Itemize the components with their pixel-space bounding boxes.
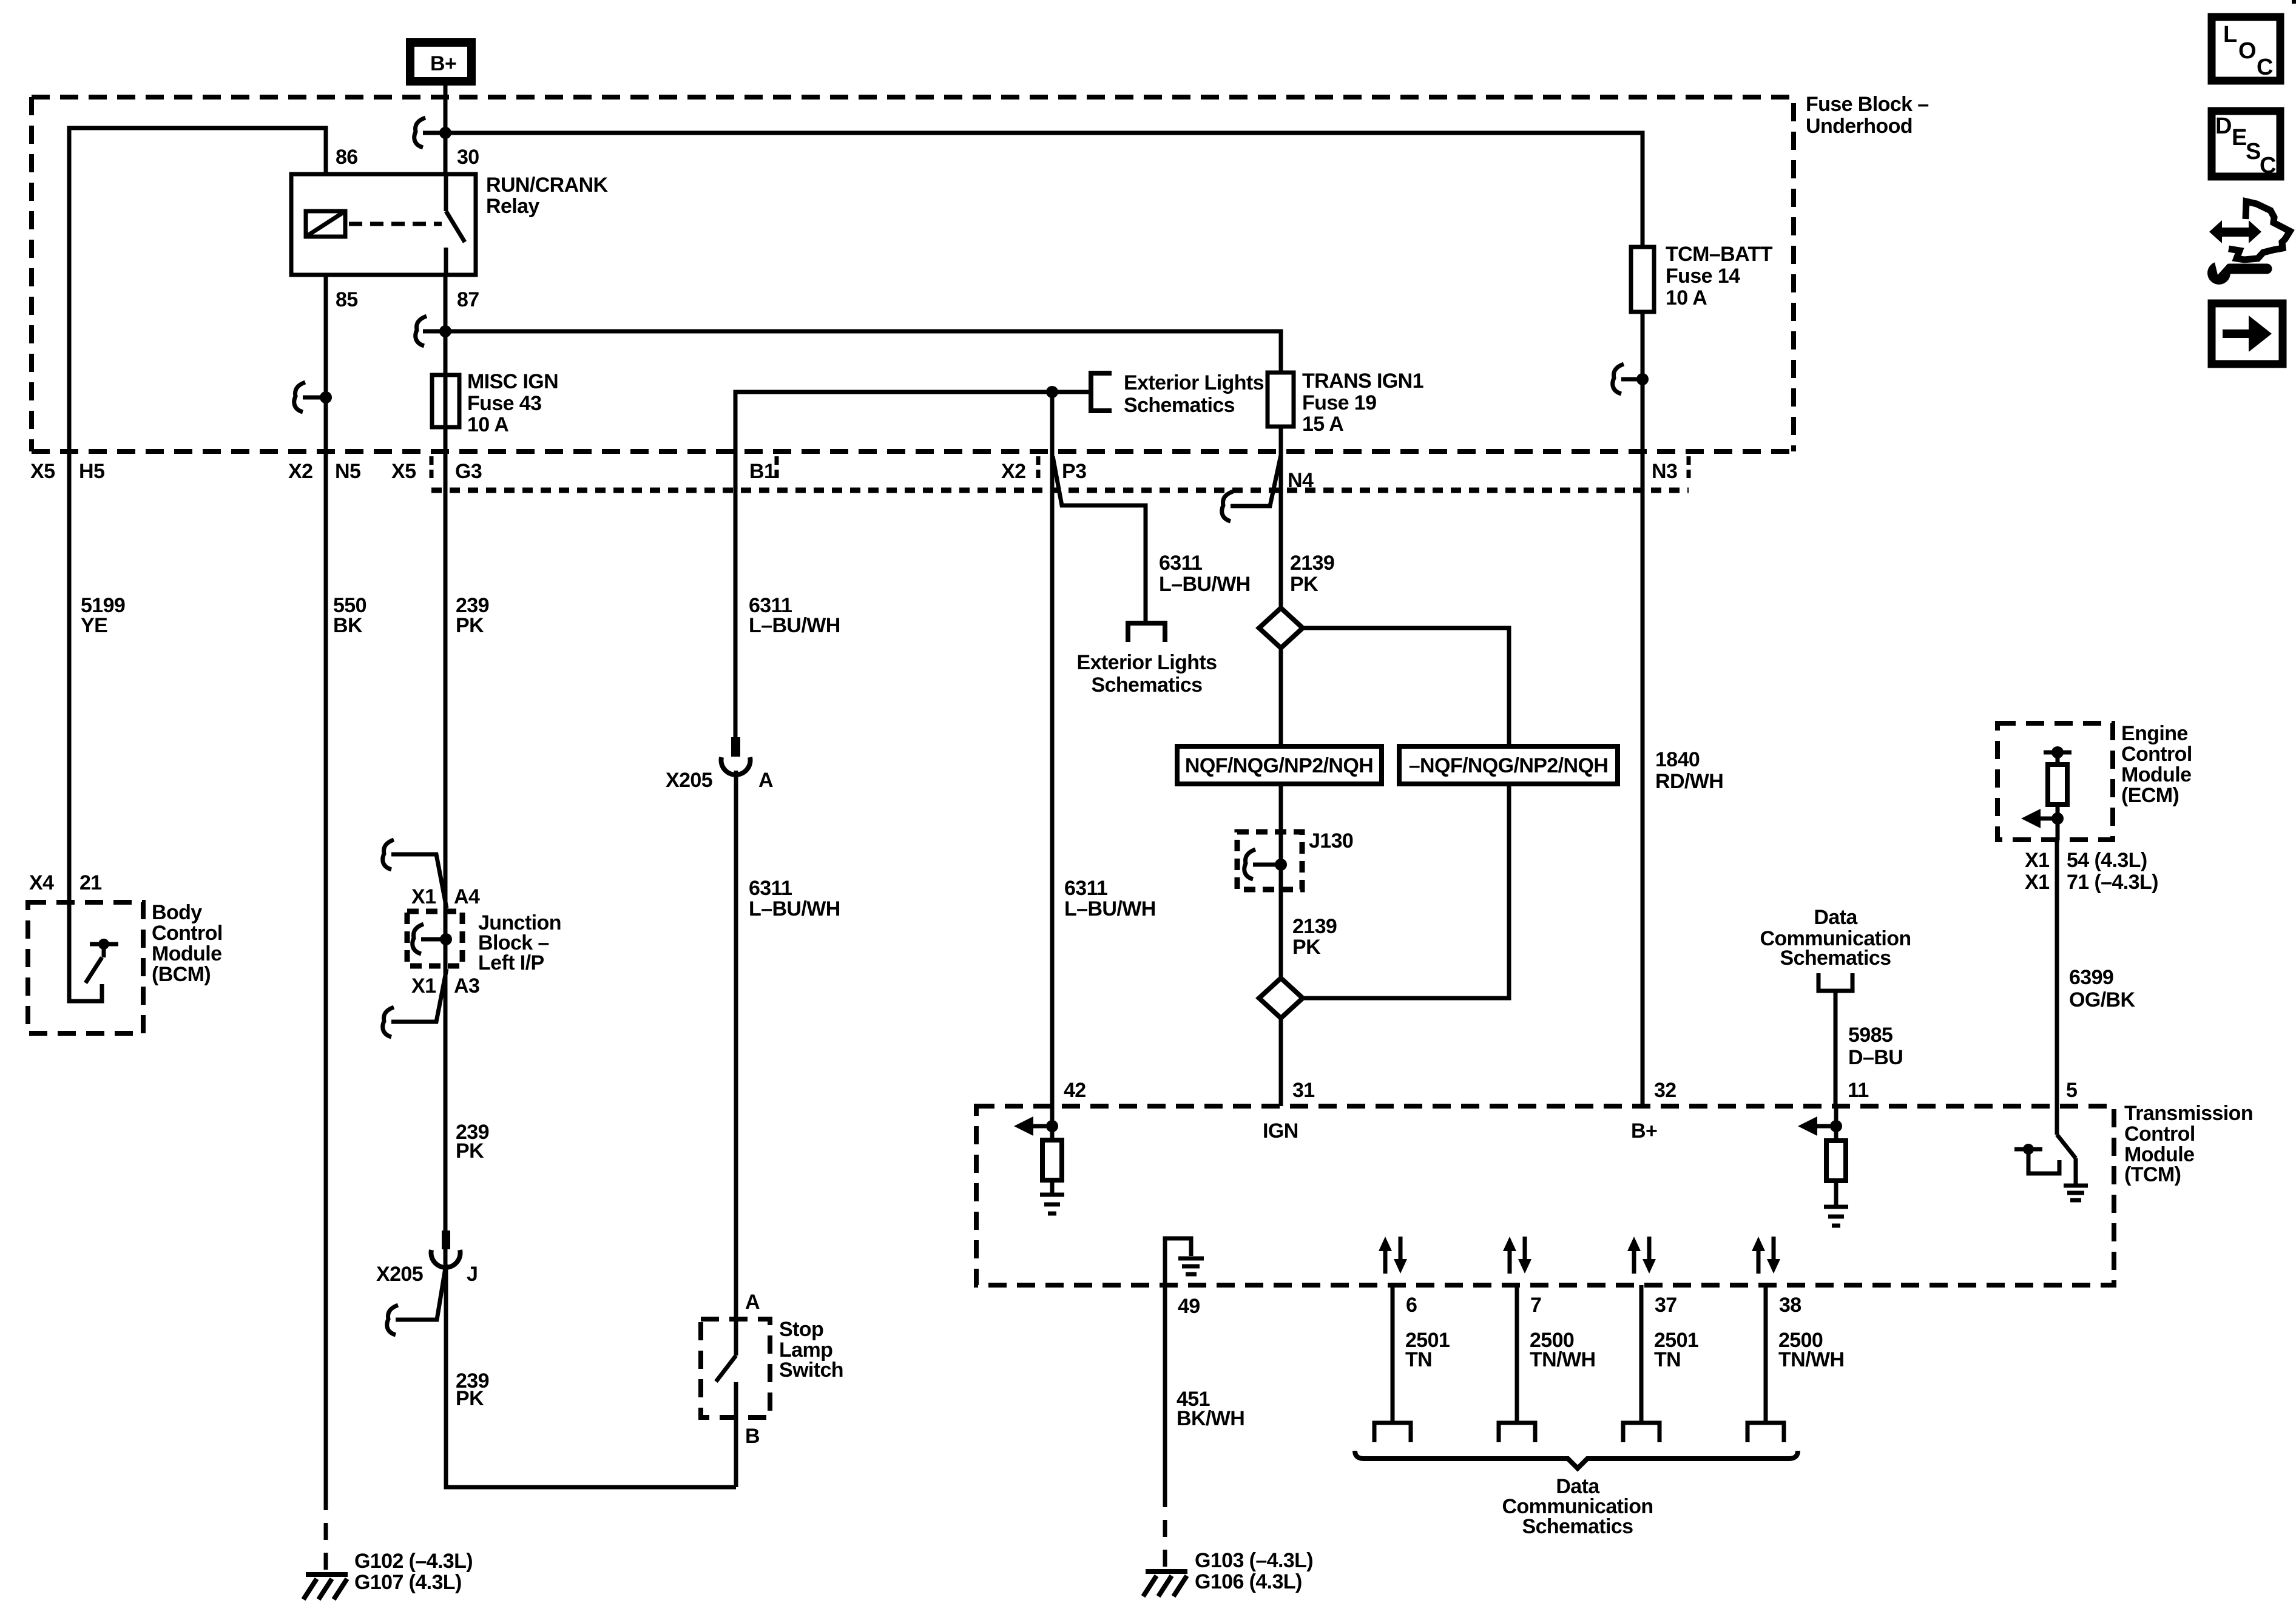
connector symbol pin38 xyxy=(1746,1423,1786,1442)
svg-text:54 (4.3L): 54 (4.3L) xyxy=(2067,849,2147,872)
svg-text:B1: B1 xyxy=(749,460,775,483)
node pin87 junction dot xyxy=(439,325,451,337)
svg-text:TN: TN xyxy=(1405,1348,1432,1371)
svg-text:X5: X5 xyxy=(391,460,416,483)
wire P3 branch diagonal to exterior lights drop xyxy=(1053,456,1146,621)
BCM dashed box xyxy=(28,902,143,1033)
relay coil xyxy=(306,211,345,237)
svg-text:Schematics: Schematics xyxy=(1092,673,1203,697)
svg-text:A: A xyxy=(745,1291,760,1314)
svg-text:7: 7 xyxy=(1530,1294,1541,1317)
wire junction block clip stub xyxy=(421,937,446,942)
label Transmission Control Module (TCM) xyxy=(2124,1102,2253,1186)
svg-text:X1: X1 xyxy=(411,885,436,908)
node pin30 junction dot xyxy=(439,127,451,139)
label 239 PK lower xyxy=(456,1369,489,1410)
svg-text:X5: X5 xyxy=(30,460,55,483)
wire TCM-BATT fuse down to TCM pin 32 xyxy=(1641,312,1645,1106)
svg-text:L: L xyxy=(2223,22,2237,47)
X205 J female connector xyxy=(431,1230,461,1268)
svg-text:YE: YE xyxy=(81,614,107,637)
svg-text:L–BU/WH: L–BU/WH xyxy=(1159,573,1251,596)
label 2501 TN pin37 xyxy=(1654,1329,1698,1371)
wire relay pin85 down xyxy=(324,275,328,1493)
svg-text:D–BU: D–BU xyxy=(1848,1046,1903,1069)
svg-text:11: 11 xyxy=(1848,1079,1869,1102)
svg-text:Engine: Engine xyxy=(2121,722,2188,745)
svg-text:G106 (4.3L): G106 (4.3L) xyxy=(1195,1570,1302,1593)
svg-text:X205: X205 xyxy=(666,769,712,792)
svg-text:Relay: Relay xyxy=(486,195,539,218)
svg-text:Control: Control xyxy=(2124,1122,2195,1146)
connector labels X5 H5 xyxy=(30,460,104,483)
svg-text:PK: PK xyxy=(456,1387,484,1410)
labels X205 J xyxy=(376,1263,478,1286)
wire junction block upper lead xyxy=(391,854,447,908)
wire diamond upper branch right xyxy=(1303,628,1509,746)
TCM pin42 internal: arrow resistor ground xyxy=(1014,1106,1064,1214)
label 6399 OG/BK xyxy=(2069,966,2135,1011)
svg-text:–NQF/NQG/NP2/NQH: –NQF/NQG/NP2/NQH xyxy=(1409,754,1609,777)
svg-text:21: 21 xyxy=(79,871,102,894)
labels X205 A xyxy=(666,769,773,792)
wire pin 7 xyxy=(1515,1285,1519,1423)
svg-text:BK: BK xyxy=(333,614,363,637)
ECM dashed box xyxy=(1997,723,2113,840)
svg-text:42: 42 xyxy=(1064,1079,1086,1102)
clip at X205 J branch xyxy=(387,1305,398,1335)
svg-text:A3: A3 xyxy=(454,974,479,998)
svg-text:PK: PK xyxy=(1290,573,1319,596)
wire N5 clip stub xyxy=(303,396,326,400)
label 550 BK xyxy=(333,594,366,637)
wire diamond lower down to TCM pin 31 xyxy=(1279,1018,1283,1106)
svg-text:E: E xyxy=(2232,125,2247,150)
svg-text:Data: Data xyxy=(1814,906,1858,929)
wire 550 BK dashed tail xyxy=(324,1493,328,1573)
clip inside J130 xyxy=(1244,849,1255,879)
clip at N4 terminal xyxy=(1222,491,1233,521)
svg-text:X2: X2 xyxy=(1001,460,1025,483)
label 2500 TN/WH pin38 xyxy=(1778,1329,1844,1371)
TCM pin49 internal ground xyxy=(1165,1238,1204,1285)
fuse MISC IGN Fuse 43 xyxy=(432,375,459,427)
label TRANS IGN1 Fuse 19 15 A xyxy=(1302,370,1423,436)
wire 239 PK down to stop lamp junction xyxy=(446,1264,736,1487)
connector symbol pin7 xyxy=(1497,1423,1537,1442)
node N3 terminal dot xyxy=(1636,373,1649,385)
svg-text:Module: Module xyxy=(152,942,221,965)
splice J130 dashed box xyxy=(1237,832,1302,890)
wire B1 from X205 A down to stop lamp switch xyxy=(734,771,738,1355)
svg-text:TN/WH: TN/WH xyxy=(1530,1348,1595,1371)
label TCM-BATT Fuse 14 10 A xyxy=(1666,243,1773,309)
label MISC IGN Fuse 43 10 A xyxy=(467,370,558,436)
corner mark xyxy=(2292,0,2296,4)
connector symbol pin6 xyxy=(1373,1423,1413,1442)
brace data communication xyxy=(1355,1451,1798,1468)
svg-text:S: S xyxy=(2246,139,2261,164)
svg-text:J130: J130 xyxy=(1309,829,1353,852)
label Body Control Module (BCM) xyxy=(152,901,223,986)
stop lamp switch dashed box xyxy=(701,1319,770,1417)
fuse TCM-BATT Fuse 14 xyxy=(1631,247,1654,312)
connector labels X5 G3 xyxy=(391,460,482,483)
svg-text:Body: Body xyxy=(152,901,202,924)
svg-text:J: J xyxy=(467,1263,478,1286)
clip at N5 terminal xyxy=(294,382,305,412)
TCM pin11 internal: arrow resistor ground xyxy=(1798,1106,1848,1226)
svg-text:TN: TN xyxy=(1654,1348,1681,1371)
svg-text:86: 86 xyxy=(336,146,358,169)
svg-text:71 (–4.3L): 71 (–4.3L) xyxy=(2067,871,2158,894)
svg-text:6: 6 xyxy=(1406,1294,1417,1317)
svg-text:G3: G3 xyxy=(455,460,482,483)
label 451 BK/WH xyxy=(1177,1388,1244,1430)
fuse TRANS IGN1 Fuse 19 xyxy=(1268,373,1294,427)
svg-text:Control: Control xyxy=(152,922,223,945)
label Exterior Lights Schematics upper xyxy=(1124,371,1264,417)
ground G102/G107 symbol xyxy=(303,1575,348,1599)
clip at pin87 junction xyxy=(416,316,427,346)
TCM dashed box xyxy=(976,1106,2114,1285)
junction block dashed box xyxy=(407,911,462,966)
svg-text:Underhood: Underhood xyxy=(1806,115,1913,138)
svg-text:Schematics: Schematics xyxy=(1124,394,1235,417)
connector symbol pin37 xyxy=(1621,1423,1661,1442)
labels ECM pins X1 54 X1 71 xyxy=(2025,849,2158,894)
wire 5985 D-BU to TCM pin 11 xyxy=(1834,991,1838,1106)
svg-text:N4: N4 xyxy=(1288,469,1314,492)
connector bracket to Exterior Lights Schematics xyxy=(1091,373,1112,411)
connector symbol exterior lights drop xyxy=(1128,623,1165,642)
label 6311 L-BU/WH lower on P3 wire xyxy=(1064,877,1156,920)
X205 J branch lead xyxy=(396,1268,445,1320)
svg-text:C: C xyxy=(2260,153,2276,178)
svg-text:O: O xyxy=(2238,38,2257,64)
wire pin 6 xyxy=(1391,1285,1395,1423)
label 5985 D-BU xyxy=(1848,1024,1903,1069)
svg-text:6311: 6311 xyxy=(1159,552,1202,575)
ground G103/G106 symbol xyxy=(1143,1571,1187,1596)
clip at N3 terminal xyxy=(1613,364,1624,394)
data arrows pin 37 xyxy=(1627,1237,1656,1274)
labels X1 A3 xyxy=(411,974,479,998)
svg-text:Exterior Lights: Exterior Lights xyxy=(1077,651,1217,674)
data arrows pin 6 xyxy=(1379,1237,1407,1274)
relay RUN/CRANK box xyxy=(291,174,476,275)
svg-text:RUN/CRANK: RUN/CRANK xyxy=(486,174,609,197)
junction block clip upper X1 A4 xyxy=(383,840,394,869)
TCM pin5 internal: switch to ground xyxy=(2014,1106,2088,1200)
svg-text:Control: Control xyxy=(2121,743,2192,766)
relay actuation dashed link xyxy=(349,222,442,226)
node junction dot P3/exterior lights xyxy=(1046,386,1058,398)
fuse block underhood dashed box xyxy=(32,97,1794,451)
label 6311 L-BU/WH lower B1 xyxy=(749,877,840,920)
svg-text:NQF/NQG/NP2/NQH: NQF/NQG/NP2/NQH xyxy=(1185,754,1373,777)
svg-text:6399: 6399 xyxy=(2069,966,2113,989)
label 6311 L-BU/WH on B1 wire xyxy=(749,594,840,637)
label 2139 PK lower xyxy=(1292,915,1337,959)
svg-text:G107 (4.3L): G107 (4.3L) xyxy=(354,1571,462,1594)
svg-text:Schematics: Schematics xyxy=(1780,947,1891,970)
connector row fine dashed line xyxy=(431,456,1689,490)
label 6311 L-BU/WH on P3 branch xyxy=(1159,552,1251,596)
label Junction Block - Left I/P xyxy=(478,911,561,974)
icon DESC box xyxy=(2212,111,2280,178)
label 239 PK upper xyxy=(456,594,489,637)
svg-text:L–BU/WH: L–BU/WH xyxy=(1064,897,1156,920)
label Stop Lamp Switch xyxy=(779,1318,843,1382)
clip at pin30 junction xyxy=(414,118,425,147)
svg-text:MISC IGN: MISC IGN xyxy=(467,370,558,393)
svg-text:RD/WH: RD/WH xyxy=(1655,770,1723,793)
svg-text:49: 49 xyxy=(1178,1295,1200,1318)
svg-text:G103 (–4.3L): G103 (–4.3L) xyxy=(1195,1549,1313,1572)
data arrows pin 38 xyxy=(1752,1237,1780,1274)
svg-text:TN/WH: TN/WH xyxy=(1778,1348,1844,1371)
svg-text:37: 37 xyxy=(1655,1294,1677,1317)
svg-text:5985: 5985 xyxy=(1848,1024,1893,1047)
svg-text:Transmission: Transmission xyxy=(2124,1102,2253,1125)
label Engine Control Module (ECM) xyxy=(2121,722,2192,807)
svg-text:N3: N3 xyxy=(1652,460,1677,483)
stop lamp switch blade xyxy=(716,1355,736,1487)
svg-text:X4: X4 xyxy=(29,871,54,894)
ECM internal resistor with supply xyxy=(2021,746,2071,840)
wire B1 branch: corner down from exterior lights feed xyxy=(735,392,1091,737)
wire J130 clip stub xyxy=(1253,863,1281,867)
svg-text:85: 85 xyxy=(336,288,358,311)
svg-text:32: 32 xyxy=(1654,1079,1676,1102)
wire diamond upper down through NQF box xyxy=(1279,648,1283,832)
wire J130 down to diamond lower xyxy=(1279,832,1283,978)
labels X1 A4 xyxy=(411,885,480,908)
svg-text:Fuse 14: Fuse 14 xyxy=(1666,265,1740,288)
wire internal fuse block left loop to relay pin86 xyxy=(69,128,326,900)
label Exterior Lights Schematics lower xyxy=(1077,651,1217,697)
svg-text:10 A: 10 A xyxy=(1666,286,1707,309)
wire pin30 junction horizontal to right xyxy=(423,133,1643,247)
wire 6399 OG/BK ECM to TCM pin 5 xyxy=(2055,840,2059,1106)
connector labels X2 N5 xyxy=(288,460,360,483)
wire pin87 junction horizontal to TRANS IGN1 fuse xyxy=(423,331,1281,373)
svg-text:Schematics: Schematics xyxy=(1522,1515,1633,1538)
svg-text:L–BU/WH: L–BU/WH xyxy=(749,897,840,920)
svg-text:Fuse 43: Fuse 43 xyxy=(467,392,541,415)
svg-text:Exterior Lights: Exterior Lights xyxy=(1124,371,1264,394)
wire below TRANS IGN1 fuse to diamond xyxy=(1279,427,1283,609)
svg-text:PK: PK xyxy=(1292,936,1321,959)
svg-text:A4: A4 xyxy=(454,885,480,908)
label Data Communication Schematics lower xyxy=(1502,1475,1653,1538)
data arrows pin 7 xyxy=(1503,1237,1531,1274)
svg-text:5: 5 xyxy=(2066,1079,2077,1102)
svg-text:(BCM): (BCM) xyxy=(152,963,211,986)
label 1840 RD/WH xyxy=(1655,748,1723,793)
svg-text:30: 30 xyxy=(457,146,479,169)
svg-text:IGN: IGN xyxy=(1263,1119,1298,1143)
svg-text:2139: 2139 xyxy=(1292,915,1337,938)
svg-text:X1: X1 xyxy=(411,974,436,998)
label Fuse Block - Underhood xyxy=(1806,93,1929,138)
node J130 dot xyxy=(1275,859,1287,871)
wire BCM internal hook xyxy=(69,900,102,1001)
svg-text:(ECM): (ECM) xyxy=(2121,784,2179,807)
svg-text:6311: 6311 xyxy=(1064,877,1107,900)
svg-text:PK: PK xyxy=(456,614,484,637)
connector labels X2 P3 xyxy=(1001,460,1086,483)
svg-text:X1: X1 xyxy=(2025,871,2049,894)
option box NQF/NQG/NP2/NQH xyxy=(1177,746,1382,784)
svg-text:A: A xyxy=(758,769,773,792)
X205 A female connector xyxy=(721,737,751,775)
svg-text:X205: X205 xyxy=(376,1263,423,1286)
svg-text:X2: X2 xyxy=(288,460,312,483)
label Data Communication Schematics upper xyxy=(1760,906,1911,970)
svg-text:B: B xyxy=(745,1425,760,1448)
icon arrow box xyxy=(2212,303,2283,364)
junction block lower lead xyxy=(391,969,447,1022)
splice diamond upper xyxy=(1259,608,1303,648)
svg-text:PK: PK xyxy=(456,1139,484,1163)
wire pin 38 xyxy=(1764,1285,1768,1423)
svg-text:BK/WH: BK/WH xyxy=(1177,1407,1244,1430)
label 2501 TN pin6 xyxy=(1405,1329,1450,1371)
svg-text:38: 38 xyxy=(1779,1294,1801,1317)
wire N4 clip stub and diagonal xyxy=(1231,455,1281,506)
svg-text:G102 (–4.3L): G102 (–4.3L) xyxy=(354,1550,473,1573)
svg-text:B+: B+ xyxy=(1631,1119,1657,1143)
svg-text:C: C xyxy=(2257,55,2273,80)
svg-text:N5: N5 xyxy=(335,460,360,483)
connector symbol data comm upper xyxy=(1817,973,1854,991)
wire 451 BK/WH xyxy=(1163,1285,1167,1490)
svg-text:15 A: 15 A xyxy=(1302,413,1343,436)
relay switch xyxy=(446,174,465,275)
svg-text:10 A: 10 A xyxy=(467,413,508,436)
wire right branch below option box xyxy=(1303,784,1509,998)
svg-text:L–BU/WH: L–BU/WH xyxy=(749,614,840,637)
svg-text:(TCM): (TCM) xyxy=(2124,1163,2181,1186)
svg-text:B+: B+ xyxy=(430,52,456,75)
labels G102 G107 xyxy=(354,1550,473,1594)
svg-text:Left I/P: Left I/P xyxy=(478,951,544,974)
label RUN/CRANK Relay xyxy=(486,174,609,218)
svg-text:Fuse Block –: Fuse Block – xyxy=(1806,93,1929,116)
svg-text:H5: H5 xyxy=(79,460,104,483)
wire relay pin87 down through MISC IGN fuse xyxy=(444,275,448,1264)
svg-text:6311: 6311 xyxy=(749,877,792,900)
option box -NQF/NQG/NP2/NQH xyxy=(1399,746,1618,784)
labels G103 G106 xyxy=(1195,1549,1313,1593)
BCM switch xyxy=(86,939,118,983)
splice diamond lower xyxy=(1259,978,1303,1018)
svg-text:Module: Module xyxy=(2121,763,2191,786)
clip inside junction block xyxy=(413,924,424,954)
svg-text:TRANS IGN1: TRANS IGN1 xyxy=(1302,370,1423,393)
svg-text:D: D xyxy=(2215,113,2232,139)
svg-text:2139: 2139 xyxy=(1290,552,1334,575)
svg-text:Fuse 19: Fuse 19 xyxy=(1302,391,1376,414)
wire B+ down to junction xyxy=(444,86,448,172)
node junction block dot xyxy=(440,933,452,945)
label 5199 YE xyxy=(81,594,125,637)
svg-text:OG/BK: OG/BK xyxy=(2069,988,2135,1011)
svg-text:31: 31 xyxy=(1292,1079,1315,1102)
label 239 PK mid xyxy=(456,1121,489,1163)
wire P3 down to TCM pin 42 xyxy=(1050,392,1055,1106)
icon hand with double arrow and wrench xyxy=(2207,201,2290,285)
svg-text:87: 87 xyxy=(457,288,479,311)
label 2139 PK upper xyxy=(1290,552,1334,596)
svg-text:TCM–BATT: TCM–BATT xyxy=(1666,243,1773,266)
wire pin 37 xyxy=(1639,1285,1644,1423)
node N5 terminal dot xyxy=(320,391,332,403)
svg-text:Switch: Switch xyxy=(779,1359,843,1382)
label 2500 TN/WH pin7 xyxy=(1530,1329,1595,1371)
B+ feed box xyxy=(410,42,471,81)
svg-text:X1: X1 xyxy=(2025,849,2049,872)
labels X4 21 xyxy=(29,871,102,894)
icon LOC box xyxy=(2212,17,2280,81)
svg-text:P3: P3 xyxy=(1062,460,1086,483)
svg-text:1840: 1840 xyxy=(1655,748,1700,771)
junction block clip lower X1 A3 xyxy=(383,1007,394,1037)
svg-text:Stop: Stop xyxy=(779,1318,823,1341)
wire N3 clip stub xyxy=(1621,377,1643,382)
